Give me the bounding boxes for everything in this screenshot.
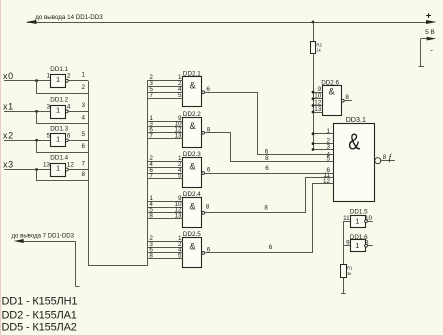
wire input x2	[4, 140, 51, 142]
output bubble DD1.3	[65, 139, 68, 142]
junction x2 branch	[35, 139, 38, 142]
svg-text:6: 6	[265, 165, 269, 172]
wire x3 direct branch to bus	[37, 170, 89, 181]
junction DD3.1 pin 1	[312, 132, 315, 135]
svg-text:1: 1	[355, 216, 359, 225]
bus wire vertical left (inverter outputs)	[88, 81, 90, 266]
svg-text:12: 12	[67, 162, 75, 169]
wire DD2.4 output to DD3.1 pin 11	[205, 178, 334, 213]
output bubble DD1.6	[365, 244, 368, 247]
svg-text:до вывода 7 DD1-DD3: до вывода 7 DD1-DD3	[12, 232, 75, 239]
svg-text:8: 8	[206, 203, 210, 210]
wire DD1.3 output to bus	[68, 140, 88, 142]
wire minus supply lead	[421, 38, 429, 40]
wire minus lead vertical	[420, 39, 422, 67]
svg-text:1: 1	[46, 73, 50, 80]
output bubble DD2.1	[202, 91, 205, 94]
svg-text:x2: x2	[3, 130, 14, 140]
svg-text:8: 8	[265, 155, 269, 162]
svg-text:2: 2	[82, 84, 86, 91]
wire R2 to DD2.6 inputs and DD3.1 pins 1-3	[313, 53, 315, 150]
wire bus net 6 to DD2.2 pin 12	[147, 132, 183, 134]
svg-text:6: 6	[206, 86, 210, 93]
svg-text:1: 1	[56, 106, 60, 115]
svg-text:1: 1	[56, 164, 60, 173]
svg-text:7: 7	[149, 133, 153, 140]
svg-text:DD2 - К155ЛА1: DD2 - К155ЛА1	[2, 310, 77, 322]
svg-text:7: 7	[82, 160, 86, 167]
svg-text:&: &	[190, 201, 196, 211]
wire bus net 2 to DD2.5 pin 1	[147, 241, 183, 243]
wire pin-7 net vertical	[75, 241, 77, 287]
svg-text:1: 1	[56, 135, 60, 144]
svg-text:DD2.2: DD2.2	[183, 111, 201, 118]
wire DD2.2 output to DD3.1 pin 5	[205, 133, 334, 162]
svg-text:x1: x1	[3, 102, 14, 112]
junction DD3.1 pin 3	[312, 148, 315, 151]
svg-text:13: 13	[43, 162, 51, 169]
wire DD2.1 output to DD3.1 pin 4	[205, 93, 334, 155]
wire input x0	[4, 80, 51, 82]
wire to DD2.6 pin 10	[313, 98, 322, 100]
svg-text:13: 13	[174, 213, 182, 220]
wire bus net 5 to DD2.4 pin 12	[147, 212, 183, 214]
svg-text:5: 5	[178, 253, 182, 260]
svg-text:6: 6	[67, 132, 71, 139]
arrowhead minus supply terminal	[427, 37, 437, 41]
svg-text:1: 1	[355, 241, 359, 250]
wire bus net 8 to DD2.4 pin 13	[147, 218, 183, 220]
svg-text:+: +	[426, 11, 432, 22]
svg-text:8: 8	[82, 171, 86, 178]
svg-text:5 В: 5 В	[425, 29, 434, 36]
arrowhead +5V supply terminal	[426, 20, 437, 24]
svg-text:7: 7	[149, 92, 153, 99]
wire to DD2.6 pin 12	[313, 105, 322, 107]
wire R2 net to DD3.1 pin 2	[313, 143, 333, 145]
arrowhead to pin 14 DD1-DD3	[26, 20, 37, 24]
wire bus net 7 to DD2.3 pin 5	[147, 178, 183, 180]
svg-text:DD1.3: DD1.3	[50, 126, 68, 133]
wire bus net 4 to DD2.4 pin 10	[147, 207, 183, 209]
svg-text:5: 5	[178, 92, 182, 99]
svg-text:R1: R1	[347, 266, 353, 271]
wire bus net 4 to DD2.3 pin 2	[147, 167, 183, 169]
bus wire bottom link	[88, 265, 147, 267]
output bubble DD1.4	[65, 168, 68, 171]
output bubble DD1.1	[65, 79, 68, 82]
junction at DD2.6 pin 12 wire	[312, 104, 315, 107]
wire bus net 3 to DD2.1 pin 2	[147, 86, 183, 88]
output bubble DD3.1	[375, 158, 381, 164]
terminal tick minus lead	[419, 66, 425, 68]
svg-text:8: 8	[383, 154, 387, 161]
wire input x1	[4, 111, 51, 113]
wire bus net 1 to DD2.4 pin 9	[147, 201, 183, 203]
svg-text:8: 8	[264, 205, 268, 212]
wire DD1.4 output to bus	[68, 169, 88, 171]
svg-text:1к: 1к	[347, 271, 351, 276]
svg-text:x3: x3	[3, 160, 14, 170]
svg-text:DD3.1: DD3.1	[346, 115, 366, 124]
wire bus net 1 to DD2.2 pin 9	[147, 121, 183, 123]
svg-text:4: 4	[67, 103, 71, 110]
wire R2 net to DD3.1 pin 1	[313, 133, 333, 135]
output bubble DD2.4	[202, 212, 205, 215]
wire bus net 3 to DD2.5 pin 2	[147, 247, 183, 249]
svg-text:1к: 1к	[316, 48, 320, 53]
svg-text:8: 8	[345, 94, 349, 101]
output bubble DD2.2	[202, 131, 205, 134]
wire bus net 2 to DD2.1 pin 1	[147, 80, 183, 82]
wire R1 to common	[343, 278, 345, 294]
svg-text:DD1 - К155ЛН1: DD1 - К155ЛН1	[2, 296, 78, 308]
svg-text:1: 1	[56, 75, 60, 84]
wire x2 direct branch to bus	[37, 141, 89, 153]
terminal tick R1 lead	[341, 293, 345, 295]
wire DD2.5 output to DD3.1 pin 12	[205, 184, 334, 253]
svg-text:&: &	[190, 81, 196, 91]
wire DD1.6 output	[367, 245, 372, 247]
wire +5V rail (to pin 14 of DD1-DD3)	[27, 22, 429, 24]
junction at DD2.6 pin 9 wire	[312, 91, 315, 94]
wire DD1.5 output	[367, 221, 372, 223]
junction x1 branch	[35, 110, 38, 113]
svg-text:-: -	[430, 45, 433, 54]
svg-text:3: 3	[82, 102, 86, 109]
bus wire vertical right (to DD2 gate inputs)	[147, 80, 149, 265]
wire DD1.1 output to bus	[68, 80, 88, 82]
wire to DD2.6 pin 9	[313, 92, 322, 94]
svg-text:DD5 - К155ЛА2: DD5 - К155ЛА2	[2, 321, 77, 333]
svg-text:6: 6	[269, 244, 273, 251]
svg-text:3: 3	[46, 103, 50, 110]
svg-text:&: &	[190, 241, 196, 251]
svg-text:6: 6	[207, 167, 211, 174]
terminal tick pin-7 net	[76, 286, 80, 288]
wire to DD2.6 pin 13	[313, 112, 322, 114]
wire bus net 7 to DD2.1 pin 5	[147, 98, 183, 100]
wire common to pin 7 DD1-DD3	[23, 241, 76, 243]
wire DD1.5/DD1.6 input tie	[343, 221, 345, 264]
svg-text:x0: x0	[3, 71, 14, 81]
wire bus net 5 to DD2.1 pin 4	[147, 92, 183, 94]
junction DD3.1 pin 2	[312, 142, 315, 145]
svg-text:11: 11	[343, 215, 350, 222]
svg-text:6: 6	[82, 143, 86, 150]
resistor R1	[341, 265, 347, 278]
svg-text:DD1.2: DD1.2	[50, 97, 68, 104]
svg-text:&: &	[329, 86, 335, 96]
wire x0 direct branch to bus	[37, 81, 89, 94]
junction at DD2.6 pin 13 wire	[312, 111, 315, 114]
wire DD2.3 output to DD3.1 pin 6	[205, 173, 334, 175]
wire bus net 2 to DD2.3 pin 1	[147, 161, 183, 163]
svg-text:&: &	[190, 121, 196, 131]
svg-text:5: 5	[178, 173, 182, 180]
wire DD2.6 output pin 8	[344, 100, 352, 102]
output bubble DD1.2	[65, 110, 68, 113]
svg-text:7: 7	[149, 173, 153, 180]
svg-text:8: 8	[149, 213, 153, 220]
output bubble DD2.5	[202, 252, 205, 255]
wire DD3.1 output pin 8 (f)	[381, 160, 395, 162]
wire input x3	[4, 169, 51, 171]
junction +5V rail / R2	[312, 21, 315, 24]
wire +5V rail to R2	[313, 22, 315, 41]
svg-text:5: 5	[82, 131, 86, 138]
output bubble DD2.6	[341, 99, 344, 102]
svg-text:5: 5	[46, 132, 50, 139]
svg-text:1: 1	[82, 72, 86, 79]
svg-text:DD1.1: DD1.1	[50, 66, 68, 73]
junction x3 branch	[35, 168, 38, 171]
svg-text:&: &	[190, 161, 196, 171]
wire bus net 3 to DD2.2 pin 10	[147, 126, 183, 128]
svg-text:4: 4	[82, 115, 86, 122]
svg-text:DD1.4: DD1.4	[50, 155, 68, 162]
resistor R2	[311, 42, 316, 54]
svg-text:9: 9	[346, 240, 350, 247]
svg-text:&: &	[348, 130, 360, 156]
svg-text:до вывода 14 DD1-DD3: до вывода 14 DD1-DD3	[35, 14, 103, 21]
wire x1 direct branch to bus	[37, 112, 89, 124]
output bubble DD1.5	[365, 220, 368, 223]
wire bus net 6 to DD2.3 pin 4	[147, 173, 183, 175]
junction at DD2.6 pin 10 wire	[312, 97, 315, 100]
wire bus net 6 to DD2.5 pin 4	[147, 252, 183, 254]
arrowhead to pin 7 DD1-DD3	[14, 239, 24, 243]
svg-text:13: 13	[174, 133, 182, 140]
svg-text:2: 2	[67, 73, 71, 80]
wire bus net 7 to DD2.2 pin 13	[147, 138, 183, 140]
wire bus net 8 to DD2.5 pin 5	[147, 258, 183, 260]
svg-text:8: 8	[149, 253, 153, 260]
svg-text:13: 13	[314, 106, 322, 113]
junction x0 branch	[35, 79, 38, 82]
wire DD1.2 output to bus	[68, 111, 88, 113]
wire R2 net to DD3.1 pin 3	[313, 149, 333, 151]
output bubble DD2.3	[202, 172, 205, 175]
